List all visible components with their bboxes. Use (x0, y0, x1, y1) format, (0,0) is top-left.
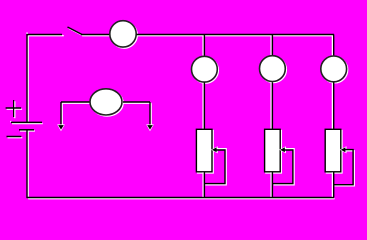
corner highlight dot (26, 33, 28, 35)
battery B1 positive plate (10, 121, 43, 124)
wire battery to bottom-left corner (27, 130, 28, 199)
wire rheostat R3 to bottom bus (332, 172, 333, 198)
wire rheostat R1 to bottom bus (203, 172, 204, 198)
wire bottom bus (27, 198, 335, 199)
voltmeter V1 left stub wire (61, 102, 90, 103)
lamp L1 (192, 56, 219, 83)
rheostat R3 wiper arrowhead (340, 146, 347, 153)
voltmeter V1 right stub wire (123, 102, 151, 103)
wire ammeter to top-right corner (137, 35, 335, 36)
wire right edge top corner drop (332, 35, 333, 56)
wire left vertical (top of battery) (27, 34, 28, 122)
voltmeter V1 right probe arrowhead (146, 124, 154, 131)
wire branch 1 top drop (203, 35, 204, 56)
switch S1 blade (68, 27, 84, 36)
ammeter A1 (110, 21, 138, 48)
wire switch to ammeter (81, 35, 110, 36)
lamp L3 (321, 56, 348, 83)
wire lamp L3 to rheostat R3 (332, 82, 333, 129)
wire branch 2 top drop (271, 35, 272, 56)
rheostat R1 wiper loop wire (204, 149, 226, 185)
battery minus label (7, 137, 23, 138)
lamp L2 (260, 56, 287, 83)
voltmeter V1 left probe arrowhead (57, 124, 65, 131)
rheostat R1 body (196, 129, 213, 173)
voltmeter V1 right probe drop wire (150, 102, 151, 126)
battery plus label (6, 100, 23, 118)
battery B1 negative plate (19, 130, 35, 131)
rheostat R1 wiper arrowhead (211, 146, 218, 153)
rheostat R2 body (265, 129, 282, 173)
rheostat R2 wiper arrowhead (279, 146, 286, 153)
wire lamp L1 to rheostat R1 (203, 83, 204, 130)
rheostat R3 body (325, 129, 342, 173)
rheostat R2 wiper loop wire (272, 149, 294, 185)
voltmeter V1 left probe drop wire (61, 102, 62, 126)
wire rheostat R2 to bottom bus (271, 172, 272, 198)
wire lamp L2 to rheostat R2 (271, 82, 272, 129)
rheostat R3 wiper loop wire (333, 150, 354, 186)
voltmeter V1 body (90, 89, 123, 116)
wire top-left segment to switch (27, 35, 64, 36)
